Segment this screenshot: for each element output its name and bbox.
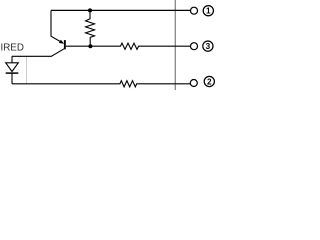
svg-text:3: 3 — [206, 42, 211, 51]
svg-text:2: 2 — [207, 78, 212, 87]
svg-text:IRED: IRED — [1, 42, 24, 53]
svg-text:1: 1 — [206, 7, 211, 16]
